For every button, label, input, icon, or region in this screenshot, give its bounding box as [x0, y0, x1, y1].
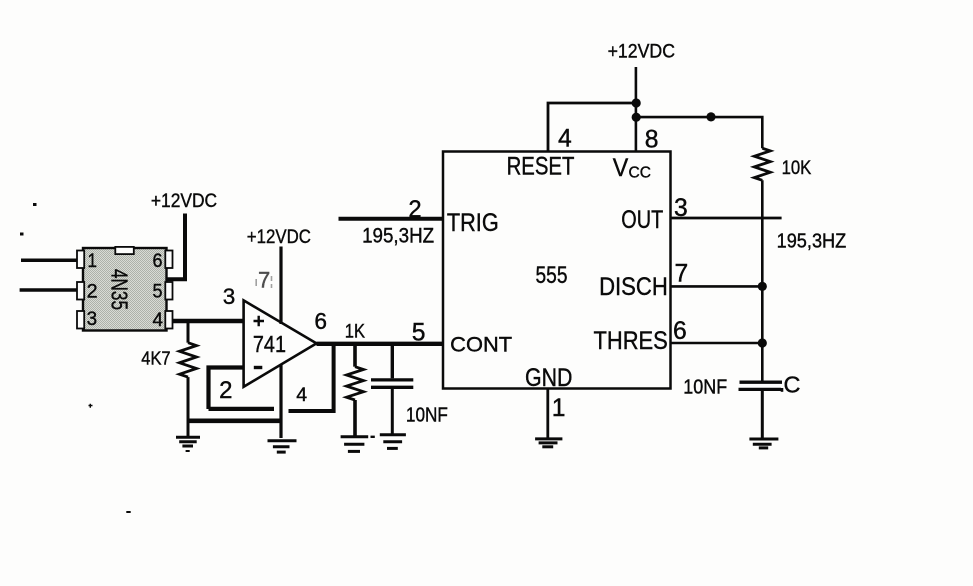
svg-text:1: 1: [552, 395, 566, 422]
svg-text:CC: CC: [629, 165, 652, 182]
svg-text:10K: 10K: [782, 157, 812, 179]
stray mark: [89, 404, 93, 408]
svg-text:8: 8: [645, 126, 659, 153]
wire input to 4N35 pin 1: [21, 259, 78, 263]
svg-text:5: 5: [412, 319, 426, 346]
svg-text:OUT: OUT: [621, 207, 663, 234]
wire inverting input loop: [209, 368, 275, 410]
wire OUT pin 3: [671, 217, 782, 220]
svg-text:3: 3: [87, 308, 98, 330]
svg-text:+12VDC: +12VDC: [247, 226, 311, 248]
feedback wire to output: [289, 344, 334, 412]
capacitor C1 10NF: [371, 344, 413, 435]
svg-text:195,3HZ: 195,3HZ: [362, 225, 434, 248]
op-amp V- wire (pin 4) to ground: [279, 365, 282, 439]
svg-text:C: C: [784, 371, 801, 397]
stray mark: [126, 511, 130, 513]
svg-text:+12VDC: +12VDC: [608, 41, 675, 63]
svg-text:2: 2: [219, 377, 232, 404]
4N35 notch: [115, 247, 134, 254]
op-amp U1 741 triangle: [244, 300, 317, 386]
ground (555): [535, 439, 562, 447]
stray mark: [20, 233, 24, 236]
ground (C1): [380, 435, 406, 449]
resistor R3 10K: [754, 148, 770, 380]
4N35 pin 6 pad: [165, 251, 172, 269]
svg-text:TRIG: TRIG: [447, 210, 499, 237]
wire to RESET pin 4: [548, 103, 636, 152]
ground (C2): [749, 439, 778, 448]
wire DISCH pin 7: [671, 285, 764, 288]
svg-text:741: 741: [253, 331, 286, 357]
svg-text:GND: GND: [525, 365, 573, 392]
svg-text:10NF: 10NF: [683, 376, 727, 398]
svg-text:1: 1: [88, 250, 98, 272]
svg-text:6: 6: [673, 318, 687, 345]
junction dot: [632, 98, 641, 107]
optocoupler U2 4N35 body: [83, 248, 167, 331]
junction dot: [758, 338, 767, 347]
resistor R2 1K: [347, 344, 364, 437]
svg-text:DISCH: DISCH: [599, 274, 668, 301]
svg-text:195,3HZ: 195,3HZ: [777, 230, 847, 253]
555 VCC supply wire (pin 8): [635, 67, 638, 152]
svg-text:3: 3: [674, 195, 688, 222]
4N35 pin 5 pad: [165, 282, 172, 300]
svg-text:V: V: [613, 154, 629, 182]
wire R1 to op-amp supply rail: [187, 418, 283, 423]
ground (op-amp supply): [268, 441, 297, 452]
svg-text:1K: 1K: [345, 322, 365, 343]
wire input to 4N35 pin 2: [20, 288, 78, 292]
op-amp minus sign: [254, 366, 262, 369]
svg-text:4K7: 4K7: [141, 347, 170, 368]
wire +12VDC to 4N35 pin 5: [168, 214, 186, 280]
svg-text:3: 3: [223, 284, 236, 309]
svg-text:THRES: THRES: [594, 328, 668, 355]
wire 4N35 pin 4 to op-amp noninverting input: [173, 319, 244, 323]
svg-text:4: 4: [296, 384, 307, 406]
op-amp plus sign: [254, 316, 265, 327]
junction dot: [632, 113, 641, 122]
IC U3 555 body: [443, 152, 671, 389]
svg-text:4: 4: [558, 126, 572, 153]
svg-text:2: 2: [87, 281, 98, 303]
svg-text:10NF: 10NF: [406, 405, 448, 427]
svg-text:2: 2: [408, 196, 421, 223]
wire VCC rail to 10K: [636, 117, 762, 148]
capacitor C2 10NF: [739, 382, 783, 439]
svg-text:CONT: CONT: [450, 334, 512, 357]
svg-text:RESET: RESET: [507, 153, 575, 181]
4N35 pin 4 pad: [165, 311, 172, 329]
svg-text:7: 7: [675, 261, 689, 288]
resistor R1 4K7: [180, 321, 197, 437]
svg-text:4N35: 4N35: [107, 269, 133, 310]
junction dot: [758, 282, 767, 291]
stray mark: [33, 203, 37, 206]
4N35 pin 3 pad: [77, 311, 84, 329]
junction dot: [706, 112, 715, 121]
svg-text:7: 7: [258, 268, 270, 293]
4N35 pin 2 pad: [77, 282, 84, 300]
op-amp supply wire (pin 7): [279, 247, 282, 325]
op-amp output wire to 555 CONT: [317, 342, 444, 346]
svg-text:+12VDC: +12VDC: [151, 190, 217, 212]
4N35 pin 1 pad: [77, 251, 84, 269]
svg-text:6: 6: [153, 250, 163, 272]
svg-text:6: 6: [314, 308, 327, 334]
wire GND pin 1: [546, 389, 549, 438]
ground (R1): [176, 437, 200, 451]
wire TRIG input: [339, 217, 444, 221]
stray mark: [781, 388, 784, 392]
svg-text:555: 555: [536, 262, 568, 289]
svg-text:4: 4: [153, 309, 164, 331]
svg-text:5: 5: [153, 281, 163, 303]
ground (R2): [341, 437, 375, 452]
wire THRES pin 6: [671, 342, 764, 345]
